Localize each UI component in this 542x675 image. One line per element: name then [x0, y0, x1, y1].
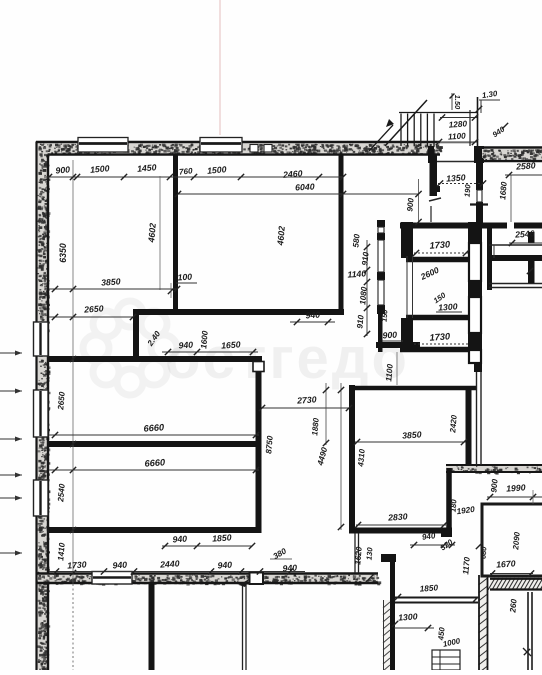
svg-text:1880: 1880: [310, 417, 321, 436]
svg-text:1730: 1730: [67, 559, 87, 570]
svg-text:4602: 4602: [146, 222, 158, 243]
svg-text:2540: 2540: [56, 483, 67, 503]
svg-text:900: 900: [382, 330, 397, 341]
svg-text:900: 900: [55, 164, 71, 175]
svg-text:1.50: 1.50: [453, 95, 462, 110]
svg-text:1100: 1100: [384, 363, 395, 382]
svg-text:2580: 2580: [515, 160, 536, 171]
svg-text:4310: 4310: [356, 448, 367, 468]
svg-text:1730: 1730: [429, 331, 451, 342]
svg-text:1620: 1620: [353, 546, 364, 565]
svg-text:1080: 1080: [358, 286, 369, 305]
svg-text:1670: 1670: [496, 558, 516, 569]
svg-text:1450: 1450: [137, 162, 157, 174]
svg-text:1990: 1990: [506, 482, 526, 493]
svg-text:1850: 1850: [212, 532, 232, 543]
svg-text:1140: 1140: [347, 268, 367, 279]
svg-text:900: 900: [489, 478, 499, 493]
svg-text:6350: 6350: [58, 243, 68, 263]
svg-text:100: 100: [177, 272, 192, 283]
svg-text:2440: 2440: [159, 558, 180, 569]
svg-text:2460: 2460: [282, 168, 303, 180]
svg-text:1680: 1680: [498, 181, 509, 200]
svg-text:1300: 1300: [398, 611, 418, 622]
svg-text:940: 940: [172, 534, 187, 545]
svg-text:2730: 2730: [296, 394, 317, 405]
svg-text:760: 760: [179, 166, 194, 176]
svg-text:940: 940: [282, 563, 297, 574]
svg-text:1850: 1850: [419, 583, 438, 593]
svg-text:1100: 1100: [448, 131, 467, 141]
svg-text:2090: 2090: [511, 531, 522, 551]
svg-text:2650: 2650: [83, 303, 104, 314]
svg-text:2420: 2420: [448, 414, 459, 434]
svg-text:6660: 6660: [144, 457, 166, 468]
svg-text:900: 900: [405, 197, 415, 212]
svg-text:8750: 8750: [264, 435, 275, 454]
svg-text:1350: 1350: [446, 172, 466, 183]
svg-text:2830: 2830: [387, 511, 408, 522]
svg-text:940: 940: [178, 340, 193, 351]
svg-text:2650: 2650: [56, 391, 67, 411]
svg-text:6660: 6660: [143, 422, 165, 433]
svg-text:1730: 1730: [429, 239, 451, 250]
svg-text:940: 940: [217, 560, 232, 571]
svg-text:910: 910: [360, 251, 370, 266]
svg-text:4602: 4602: [275, 225, 287, 246]
svg-text:1170: 1170: [461, 556, 472, 575]
svg-text:1650: 1650: [221, 339, 241, 350]
svg-text:130: 130: [364, 546, 374, 560]
svg-text:1600: 1600: [199, 330, 210, 349]
svg-text:3850: 3850: [101, 276, 121, 287]
svg-text:1410: 1410: [56, 542, 67, 561]
svg-text:580: 580: [351, 233, 361, 248]
svg-text:1300: 1300: [438, 301, 458, 312]
svg-text:260: 260: [508, 598, 518, 614]
svg-text:3850: 3850: [402, 429, 422, 440]
svg-text:910: 910: [355, 314, 365, 329]
svg-text:2546: 2546: [514, 228, 535, 239]
svg-text:1280: 1280: [448, 119, 467, 129]
svg-text:940: 940: [112, 560, 127, 571]
svg-text:190: 190: [462, 183, 472, 197]
svg-text:6040: 6040: [295, 181, 315, 192]
svg-text:680: 680: [478, 545, 488, 559]
svg-text:940: 940: [421, 531, 436, 542]
svg-text:1500: 1500: [207, 164, 227, 176]
svg-text:940: 940: [305, 310, 320, 321]
svg-text:1500: 1500: [90, 163, 110, 175]
